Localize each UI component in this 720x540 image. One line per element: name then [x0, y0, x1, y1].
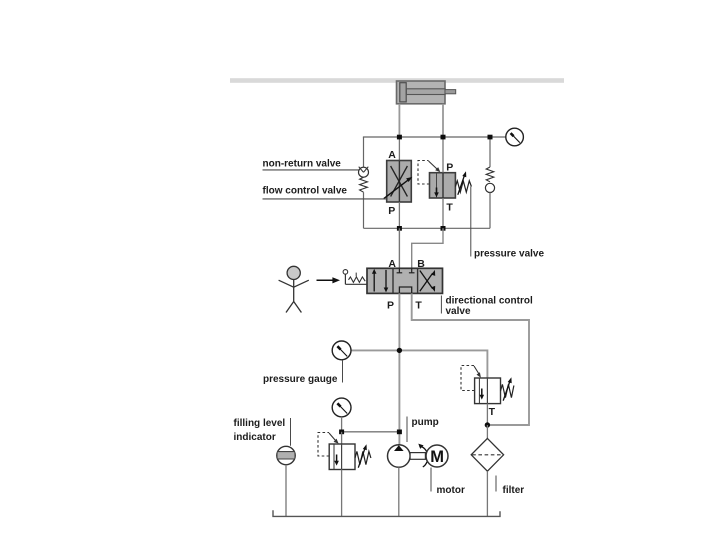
filling level indicator [277, 446, 295, 516]
leader flow control valve [263, 198, 387, 200]
svg-text:T: T [446, 201, 453, 213]
node J3 [488, 135, 493, 140]
node J9 [485, 422, 490, 427]
relief valve V3 (pump safety) [318, 432, 371, 517]
wire cylinder right port [442, 104, 444, 137]
svg-text:pressure valve: pressure valve [474, 249, 544, 260]
label motor [430, 468, 432, 492]
label pump [406, 417, 408, 443]
pump P1 [388, 445, 411, 517]
svg-text:pump: pump [412, 417, 439, 428]
wire bypass loop left [363, 137, 365, 167]
top rail band [230, 78, 564, 83]
svg-text:directional control: directional control [446, 296, 533, 307]
motor M1 [426, 445, 448, 467]
operator stick figure [279, 266, 309, 312]
pressure gauge G2 [332, 341, 351, 360]
node J5 [441, 226, 446, 231]
wire cylinder left port [398, 104, 400, 137]
svg-text:motor: motor [437, 485, 465, 496]
directional control valve V5 [367, 268, 443, 293]
svg-text:P: P [388, 205, 395, 217]
node J8 [397, 430, 402, 435]
pressure gauge G1 [506, 128, 524, 146]
svg-text:P: P [387, 299, 394, 311]
svg-text:non-return valve: non-return valve [263, 159, 342, 170]
manual lever actuator [343, 270, 367, 285]
wire gauge row [342, 431, 400, 433]
non-return valve (check ball + seat + spring) [359, 167, 369, 229]
wire pressure gauge run [351, 350, 487, 378]
svg-text:indicator: indicator [234, 432, 276, 443]
svg-text:A: A [388, 149, 396, 161]
wire T return line [412, 293, 529, 425]
wire lower manifold line [364, 227, 491, 229]
svg-text:flow control valve: flow control valve [263, 186, 348, 197]
coupling shaft [410, 453, 425, 460]
node J7 [339, 430, 344, 435]
svg-text:T: T [489, 406, 496, 418]
svg-text:B: B [417, 258, 425, 270]
cylinder C1 [397, 81, 456, 104]
wire top manifold line [363, 136, 506, 138]
svg-text:filter: filter [503, 485, 525, 496]
svg-text:M: M [430, 448, 444, 466]
spring-loaded check (relief) branch [485, 137, 494, 228]
svg-text:P: P [446, 162, 453, 174]
relief valve V4 (return line) [461, 366, 514, 426]
svg-text:A: A [388, 258, 396, 270]
svg-text:T: T [415, 299, 422, 311]
tank [273, 510, 500, 516]
label directional control valve [441, 296, 533, 318]
node J4 [397, 226, 402, 231]
svg-text:pressure gauge: pressure gauge [263, 374, 338, 385]
actuation arrow [317, 279, 334, 281]
wire P line to pump [398, 293, 400, 445]
wire A leg [398, 228, 400, 268]
leader pressure gauge [342, 360, 344, 383]
flow control valve V1 [384, 137, 413, 228]
svg-text:valve: valve [446, 306, 471, 317]
leader non-return valve [263, 169, 359, 171]
svg-text:filling level: filling level [234, 418, 286, 429]
node J2 [441, 135, 446, 140]
pressure valve V2 (top, on B leg) [418, 137, 471, 228]
label filling level indicator [234, 418, 291, 446]
label filter [495, 476, 497, 492]
leader pressure valve [470, 187, 472, 257]
wire B leg jog [412, 228, 443, 268]
filter F1 [471, 425, 503, 516]
node J6 [397, 348, 402, 353]
pressure gauge G3 [332, 398, 351, 432]
node J1 [397, 135, 402, 140]
rotation arrow [419, 446, 427, 467]
